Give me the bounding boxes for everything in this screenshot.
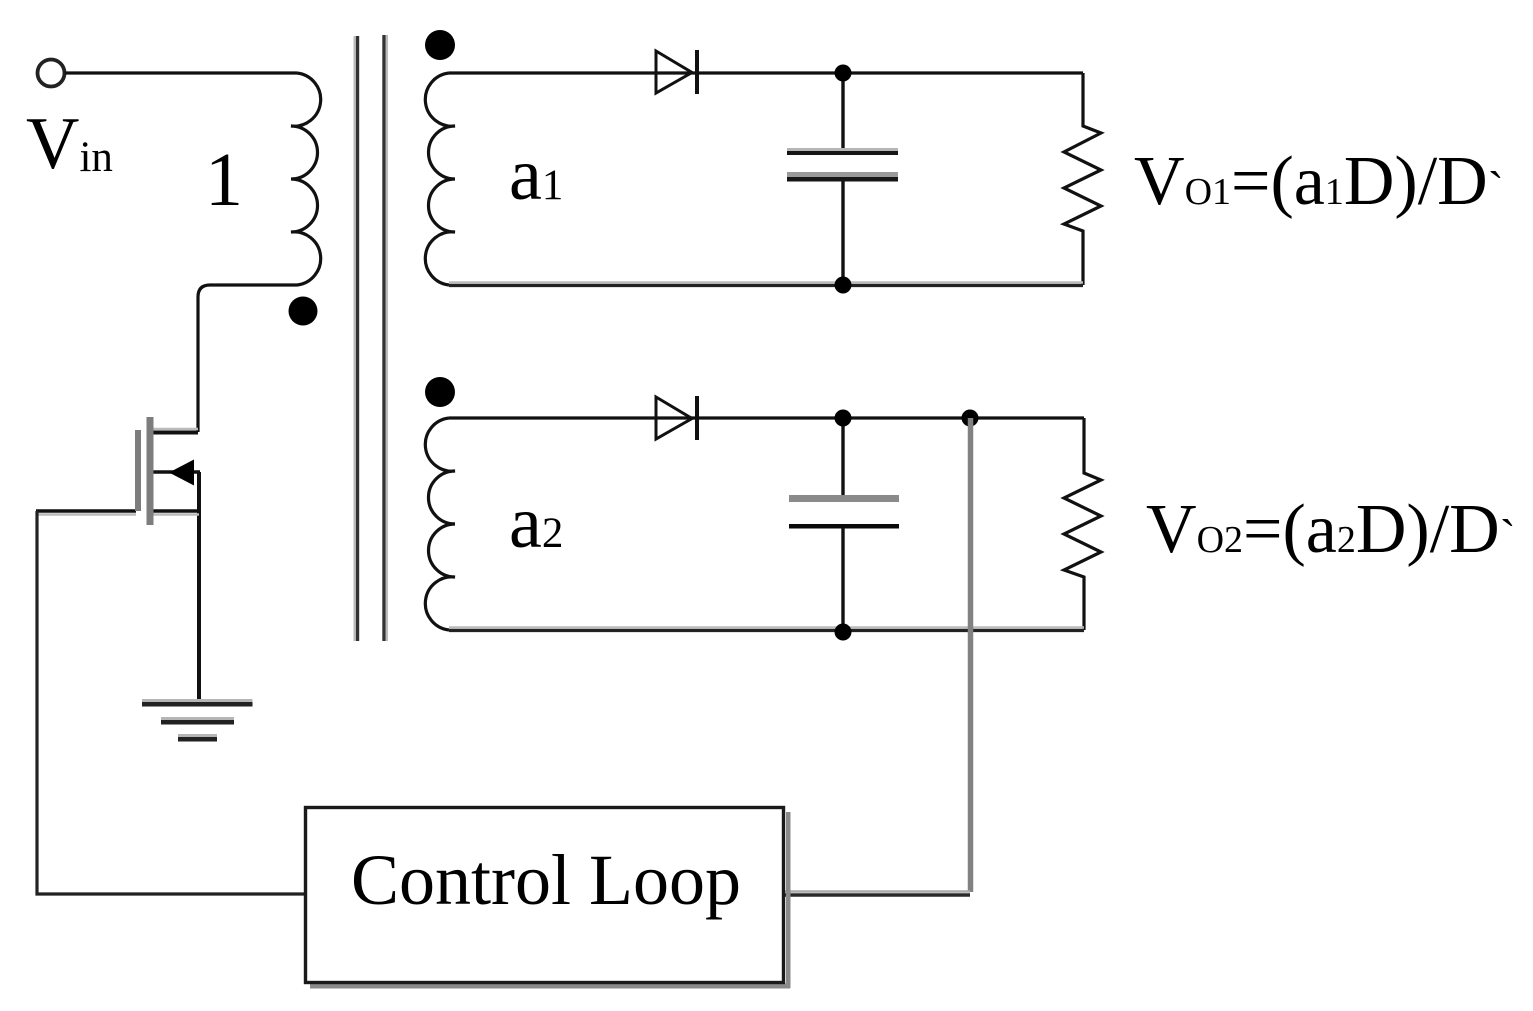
svg-text:Control Loop: Control Loop (351, 840, 741, 920)
svg-text:1: 1 (205, 138, 243, 222)
